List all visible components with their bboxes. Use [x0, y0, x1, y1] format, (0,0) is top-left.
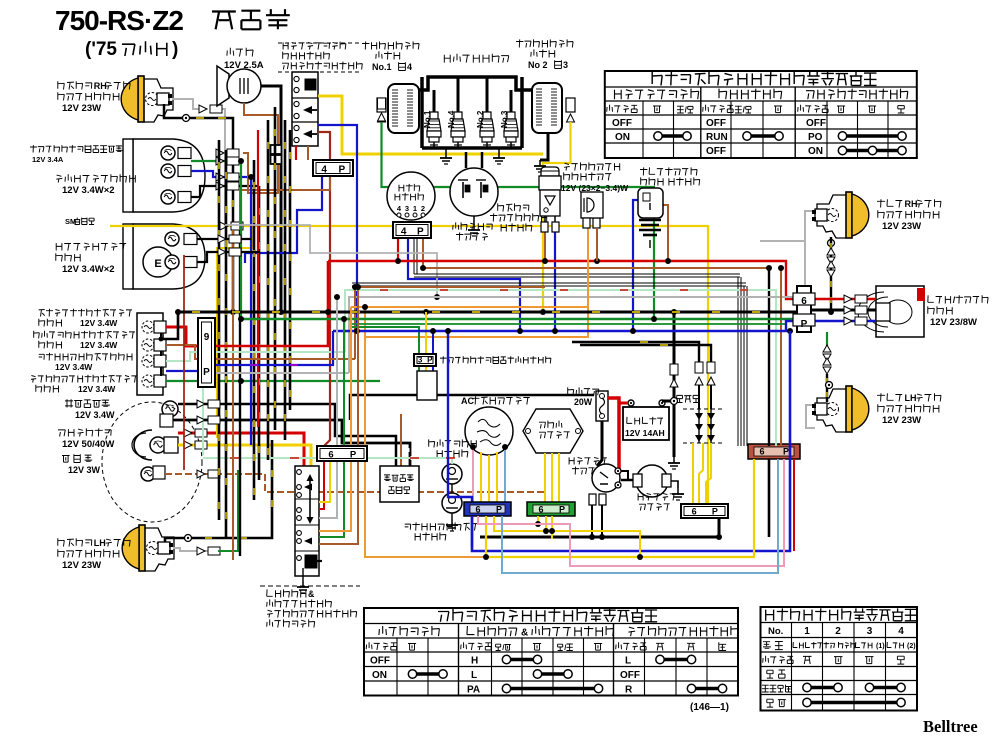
label turn signal indicator [31, 376, 36, 383]
label contact breaker [453, 222, 459, 229]
tacho bulbs [161, 146, 175, 160]
horizontal green 324 [352, 323, 786, 325]
rectifier wires down yellow [692, 443, 694, 504]
svg-text:L: L [625, 656, 631, 667]
label front LH lamp [58, 538, 65, 546]
svg-text:LH: LH [94, 538, 106, 548]
tacho bullet connectors [216, 149, 224, 157]
svg-text:No.: No. [768, 626, 783, 637]
neutral switch [442, 464, 462, 484]
contact breaker circle [450, 168, 498, 216]
6P connector green [527, 502, 575, 516]
battery wires [619, 402, 628, 405]
9P connector [198, 318, 215, 387]
svg-text:12V 2.5A: 12V 2.5A [224, 60, 264, 71]
table2 code row [366, 642, 372, 649]
table1 headers [615, 90, 622, 100]
neutral switch wire [203, 458, 452, 464]
table left-handle-switch [364, 608, 738, 696]
svg-text:3: 3 [867, 626, 873, 637]
rectifier feed wires [572, 342, 699, 362]
label neutral switch [429, 439, 435, 447]
svg-text:12V 14AH: 12V 14AH [625, 428, 665, 438]
starter motor [636, 465, 668, 497]
svg-text:Belltree: Belltree [923, 717, 978, 736]
battery negative to ground [673, 312, 676, 457]
label turn signal relay [564, 163, 570, 170]
wire black-yellow LH [165, 538, 184, 542]
svg-text:9: 9 [204, 332, 210, 343]
left vertical bundle black wires [218, 140, 221, 520]
rear LH wires [826, 332, 828, 348]
svg-text:('75: ('75 [85, 39, 117, 60]
bottom bundle blue 551 [472, 331, 790, 551]
svg-text:P: P [712, 507, 718, 517]
svg-text:1: 1 [413, 204, 417, 213]
front LH turn signal lamp [139, 525, 145, 571]
regulator hexagon [523, 409, 583, 453]
svg-text:12V 3.4W: 12V 3.4W [80, 340, 118, 350]
label oil pressure lamp [39, 354, 45, 359]
speed warning box [380, 466, 419, 502]
label brake light checker [440, 356, 447, 363]
svg-text:AC: AC [461, 396, 474, 406]
switch output wires [318, 96, 543, 154]
yellow drop to 3P [425, 312, 427, 356]
3P lower stubs [418, 366, 420, 372]
speedo bulbs [165, 232, 179, 246]
svg-text:12V 23W: 12V 23W [62, 560, 101, 571]
svg-text:ON: ON [808, 146, 823, 157]
svg-text:3: 3 [405, 204, 409, 213]
wires below main switch [397, 238, 399, 261]
label ignition coil 2 [516, 39, 523, 47]
svg-text:6: 6 [328, 450, 333, 461]
svg-text:4: 4 [898, 626, 904, 637]
label ignition coil 1 [362, 41, 369, 49]
right handle switch box [292, 72, 318, 146]
svg-text:OFF: OFF [806, 118, 826, 129]
temp warning wires [178, 404, 396, 466]
fuse wires [597, 421, 602, 466]
horizontal orange 307 [351, 228, 588, 307]
svg-text:12V 3.4W×2: 12V 3.4W×2 [62, 185, 115, 196]
svg-text:RUN: RUN [706, 132, 728, 143]
svg-text:OFF: OFF [620, 670, 640, 681]
label neutral indicator [34, 331, 40, 339]
AC generator [465, 407, 513, 455]
rear brake switch wires [633, 200, 638, 331]
svg-text:750-RS·Z2: 750-RS·Z2 [55, 5, 183, 36]
front RH turn signal lamp [138, 76, 144, 122]
svg-text:3: 3 [418, 356, 423, 365]
turn signal lamp relay [541, 167, 559, 176]
label oil pressure switch [405, 524, 411, 530]
generator wires down [472, 447, 474, 502]
svg-text:6: 6 [475, 505, 480, 515]
svg-text:No.2: No.2 [476, 110, 485, 128]
svg-text:12V 3.4W×2: 12V 3.4W×2 [62, 264, 115, 275]
speedo bullet connectors [218, 235, 226, 243]
green6P below stubs [537, 516, 539, 524]
horn [217, 66, 229, 106]
label rectifier [677, 395, 683, 402]
svg-text:RH: RH [905, 199, 918, 209]
svg-text:6: 6 [759, 447, 764, 457]
green wire coil1 [382, 122, 655, 319]
indicator lamp box [137, 313, 163, 395]
svg-text:L: L [471, 670, 477, 681]
rear LH turn signal lamp [846, 386, 852, 432]
wire black to fuse [350, 395, 594, 420]
svg-text:RH: RH [94, 81, 107, 91]
headlight wires red yellow [178, 433, 304, 466]
relay wires [544, 232, 546, 261]
wires below 6P mid into switch box [319, 461, 324, 509]
svg-text:(146—1): (146—1) [690, 702, 729, 713]
headlight assembly dashed ellipse [102, 402, 202, 522]
svg-text:P: P [559, 505, 565, 515]
svg-text:12V 3.4A: 12V 3.4A [32, 155, 64, 164]
blue into 6P rear [786, 321, 797, 331]
svg-text:ON: ON [372, 670, 387, 681]
wire black-yellow RH lamp [164, 104, 182, 118]
wire gray from RH lamp [172, 99, 199, 109]
label front brake lamp switch [498, 203, 504, 211]
battery [623, 407, 669, 440]
table main-switch [761, 607, 918, 711]
indicator bulbs [142, 321, 154, 333]
6P connector red rear [748, 444, 800, 459]
horizontal gray 297 [349, 241, 805, 373]
horizontal black-yellow 312 main [178, 311, 797, 314]
table2 links [408, 670, 416, 678]
connector block on horn line [271, 145, 282, 154]
coil2 bottom lead [540, 133, 548, 160]
svg-text:P: P [427, 356, 433, 365]
battery ground [673, 457, 675, 463]
starter relay to motor wire [621, 471, 633, 480]
coil2 right connector [566, 98, 575, 112]
label position lamp [62, 456, 70, 463]
label right handle switch dashed [283, 42, 288, 49]
svg-text:4: 4 [401, 227, 407, 238]
svg-text:12V 3W: 12V 3W [68, 465, 101, 475]
bottom bundle yellow 557 [486, 459, 754, 557]
spark plug frame thick [419, 77, 533, 90]
oil pressure switch [442, 493, 462, 513]
horizontal bundle red 261 [328, 261, 797, 299]
verticals from bundle to bottom right [768, 441, 770, 446]
main switch circle [387, 172, 435, 220]
svg-text:&: & [308, 589, 315, 599]
label brake light warn [30, 145, 37, 152]
indicator bulb jumpers [160, 333, 162, 340]
label rear brake switch [640, 167, 647, 175]
3P connector [414, 354, 436, 366]
svg-text:No.1: No.1 [423, 110, 432, 128]
green 327 to 3P [352, 327, 419, 356]
horizontal blue 331 [333, 330, 790, 332]
svg-text:(2): (2) [907, 643, 916, 650]
label speedometer lamp [56, 243, 62, 250]
rear brake lamp switch [638, 188, 663, 218]
red yellow into dimmer [303, 460, 305, 466]
svg-text:&: & [521, 628, 528, 639]
blue 3P drop [432, 331, 434, 356]
svg-text:LH: LH [905, 393, 917, 403]
coil1 left connector [377, 98, 386, 112]
brown drop to red6P [780, 268, 782, 446]
spark plugs [430, 112, 438, 119]
turn pilot lamp box [581, 192, 603, 218]
speedometer body [133, 224, 205, 289]
gray stub upper [225, 225, 437, 297]
label headlight [58, 430, 65, 437]
4P connector top [313, 160, 353, 176]
svg-text:ON: ON [615, 132, 630, 143]
svg-text:P: P [350, 450, 357, 461]
label spark plug [444, 55, 450, 63]
svg-text:12V 23W: 12V 23W [62, 103, 101, 114]
starter relay pins [589, 494, 596, 505]
ignition coil No.2-3 [532, 83, 562, 133]
label rear RH lamp [877, 199, 885, 207]
svg-text:P: P [496, 505, 502, 515]
label horn [227, 48, 234, 56]
temp warning bulb [162, 401, 178, 417]
svg-text:6: 6 [538, 505, 543, 515]
fuse [596, 391, 608, 421]
svg-text:3: 3 [563, 60, 568, 70]
svg-text:P: P [783, 447, 789, 457]
6P connector vertical rear [797, 286, 811, 332]
svg-text:No.3: No.3 [500, 110, 509, 128]
wires below 4P top [245, 176, 322, 263]
indicator black common up [161, 312, 178, 339]
horizontal brown 268 [423, 267, 769, 269]
svg-text:No 2: No 2 [528, 60, 548, 70]
svg-text:P: P [801, 319, 808, 330]
label tacho lamp [56, 175, 62, 182]
label starter motor [638, 493, 643, 500]
svg-text:4: 4 [407, 62, 412, 72]
svg-text:12V 3.4W: 12V 3.4W [78, 384, 116, 394]
horizontal green 319 [241, 318, 797, 320]
tail brake lamp [876, 286, 924, 337]
svg-text:(1): (1) [876, 643, 885, 650]
label fuse [568, 387, 574, 395]
svg-text:2: 2 [835, 626, 841, 637]
svg-text:R: R [625, 685, 633, 696]
6P connector mid [317, 446, 367, 461]
label front RH lamp [58, 81, 65, 89]
svg-text:20W: 20W [574, 397, 593, 407]
bottom bundle black 537 [480, 536, 719, 539]
horn wires [261, 86, 281, 312]
starter relay [592, 464, 620, 492]
svg-text:6: 6 [692, 507, 697, 517]
speedo E symbol [143, 247, 173, 277]
blue oil tap [448, 331, 462, 497]
table2 headers [379, 626, 387, 635]
label high beam indicator [39, 310, 45, 317]
svg-text:OFF: OFF [706, 118, 726, 129]
indicator wires to 9P [166, 327, 215, 346]
plug grounds [445, 152, 447, 158]
svg-text:OFF: OFF [370, 656, 390, 667]
svg-text:12V 23W: 12V 23W [882, 415, 921, 426]
speedo bulb wires [197, 238, 251, 240]
table1 links [654, 132, 662, 140]
regulator wires down [544, 453, 546, 502]
brown feeder speed box [400, 414, 402, 466]
svg-text:P: P [417, 227, 424, 238]
svg-text:12V 3.4W: 12V 3.4W [80, 318, 118, 328]
bottom bundle yellow2 531 [494, 516, 640, 557]
svg-text:12V 23W: 12V 23W [882, 221, 921, 232]
6P connector white starter [681, 504, 728, 518]
table1 code row [607, 105, 613, 112]
vertical bullet connectors right of coil1 [378, 98, 386, 109]
svg-text:12V 3.4W: 12V 3.4W [55, 362, 93, 372]
4P connector under main switch [393, 222, 431, 238]
position lamp wire brown [165, 474, 545, 492]
label tail brake lamp [928, 295, 934, 302]
tail lamp wires [811, 298, 876, 300]
6P connector blue [464, 502, 511, 516]
ignition coil No.1-4 [388, 84, 419, 133]
junction dots sprinkled [238, 158, 244, 164]
svg-text:H: H [471, 656, 478, 667]
svg-text:PO: PO [808, 132, 823, 143]
bullet connector RH gray [199, 105, 207, 113]
svg-text:P: P [203, 367, 210, 378]
svg-text:No.4: No.4 [447, 110, 456, 128]
horizontal brown 287 low [355, 287, 545, 359]
headlight [134, 430, 152, 460]
label starter relay [569, 457, 574, 464]
rear RH wires [760, 211, 812, 241]
svg-text:1: 1 [804, 626, 810, 637]
bullet connectors temp bulb [197, 400, 205, 408]
wire gray LH [173, 548, 216, 551]
svg-text:OFF: OFF [706, 146, 726, 157]
green vertical to LH bullet [218, 470, 238, 551]
bottom bundle lightblue 573 [502, 459, 778, 573]
svg-text:12V 3.4W: 12V 3.4W [75, 410, 115, 420]
svg-text:No.1: No.1 [372, 62, 392, 72]
svg-text:12V 50/40W: 12V 50/40W [62, 439, 114, 450]
svg-text:): ) [172, 39, 178, 60]
white wire 284 [352, 282, 746, 284]
tacho bulb wires [191, 160, 241, 162]
white wire 275 [414, 273, 740, 275]
rear RH turn signal lamp [846, 192, 852, 238]
svg-text:PA: PA [467, 685, 480, 696]
label rear LH lamp [877, 393, 885, 401]
bottom bundle pink 524-566 [478, 459, 784, 566]
left handle switch box [295, 466, 319, 576]
svg-text:OFF: OFF [612, 118, 632, 129]
contact breaker ground [473, 224, 475, 230]
position lamp [141, 467, 155, 481]
center vertical drops [336, 297, 338, 446]
rectifier [683, 408, 725, 410]
label left switch dashed [260, 585, 360, 587]
svg-text:E: E [154, 258, 161, 270]
svg-text:2: 2 [421, 204, 425, 213]
oil switch wire blue [462, 497, 472, 547]
tachometer body [133, 139, 205, 212]
left vertical colored wires [232, 230, 234, 560]
label temp warning [65, 399, 73, 407]
table3 links [803, 683, 811, 691]
svg-text:P: P [338, 165, 345, 176]
horizontal mint 290 [345, 290, 776, 446]
svg-text:6: 6 [801, 296, 807, 307]
below red 6P verticals [768, 459, 771, 537]
table light-handle-switch title [605, 71, 917, 158]
svg-text:12V 23/8W: 12V 23/8W [930, 317, 977, 328]
red drop below 6P rear [793, 459, 795, 551]
9P outgoing wires [215, 261, 328, 346]
black drop 769 [768, 268, 770, 446]
svg-text:4: 4 [321, 165, 327, 176]
